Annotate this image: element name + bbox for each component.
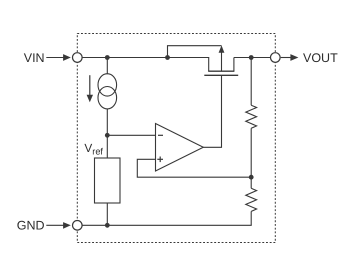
- node B: VIN / body junction: [165, 55, 170, 60]
- wire: op-amp output to gate: [203, 75, 221, 147]
- node E: Vref / ground junction: [105, 223, 110, 228]
- VOUT output arrow: [281, 54, 299, 61]
- wire: node D to Vref: [106, 135, 108, 158]
- resistor R1: [246, 58, 257, 178]
- GND terminal: [73, 221, 83, 231]
- wire: drain to VOUT: [234, 57, 271, 59]
- svg-text:VIN: VIN: [24, 51, 45, 65]
- svg-text:VOUT: VOUT: [303, 51, 338, 65]
- transistor Q1 (PMOS pass element): [204, 45, 238, 75]
- wire: VIN rail: [82, 57, 209, 59]
- node F: feedback divider midpoint: [249, 175, 254, 180]
- VOUT terminal: [271, 53, 281, 63]
- wire: Vref to ground rail: [106, 203, 108, 225]
- node C: VOUT / divider junction: [249, 55, 254, 60]
- VIN terminal: [73, 53, 83, 63]
- current source I1: [98, 74, 117, 109]
- wire: ground rail: [82, 224, 252, 226]
- wire: body connection to VIN: [168, 46, 222, 58]
- svg-text:Vref: Vref: [84, 141, 103, 156]
- IC boundary (dashed box): [77, 34, 275, 243]
- voltage reference box Vref: [95, 158, 121, 203]
- node A: VIN / current source junction: [105, 55, 110, 60]
- wire: current source to node D: [106, 109, 108, 136]
- GND input arrow: [46, 222, 71, 229]
- wire: feedback to non-inverting input: [137, 159, 251, 177]
- node D: reference / inverting input junction: [105, 133, 110, 138]
- resistor R2: [246, 177, 257, 225]
- svg-text:GND: GND: [17, 219, 45, 233]
- wire: node D to inverting input: [107, 134, 156, 136]
- wire: VIN to current source I1: [106, 58, 108, 75]
- VIN input arrow: [46, 54, 71, 61]
- current direction arrow: [87, 75, 93, 102]
- op-amp U1 (error amplifier): [156, 124, 204, 172]
